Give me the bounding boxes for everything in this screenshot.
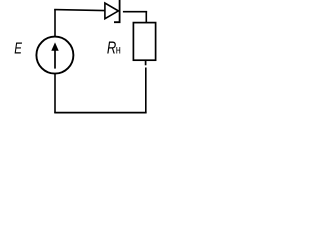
wire left vertical segment (top corner down to source circle top) <box>54 9 56 37</box>
diode cathode bar with bottom-left hook <box>115 1 120 22</box>
wire right vertical into resistor top <box>145 11 147 23</box>
source arrow head <box>51 42 58 50</box>
wire top-right horizontal segment (diode cathode to corner) <box>123 11 147 13</box>
svg-text:н: н <box>116 45 121 57</box>
wire right vertical segment (to bottom corner) <box>145 68 147 114</box>
source arrow shaft <box>54 49 56 69</box>
wire stub below resistor <box>145 60 147 65</box>
wire top-left horizontal segment (source top to diode anode) <box>54 10 104 11</box>
resistor Rн rectangle <box>133 23 155 61</box>
diode VD (zener-style) triangle <box>105 3 119 19</box>
wire bottom horizontal segment <box>54 112 146 114</box>
svg-text:E: E <box>14 39 22 57</box>
EMF source E circle <box>36 37 73 74</box>
wire left vertical segment (source circle bottom to bottom corner) <box>54 74 56 114</box>
svg-text:R: R <box>107 39 116 59</box>
